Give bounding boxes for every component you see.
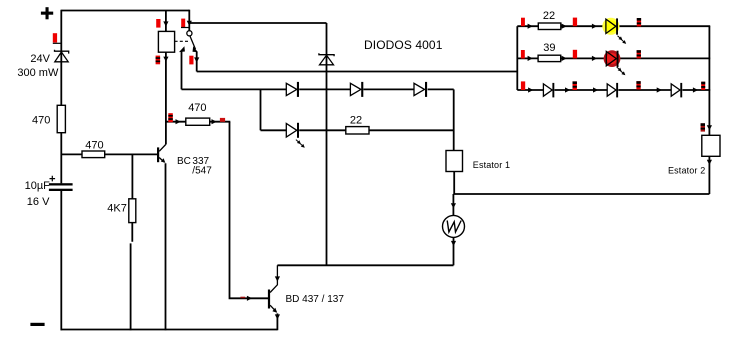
current arrow down — [707, 160, 712, 165]
wattmeter M1 — [443, 215, 465, 237]
tick under mark — [53, 42, 62, 44]
current arrow right — [592, 24, 597, 29]
striped test mark — [168, 113, 173, 122]
current arrow down collector — [275, 276, 280, 281]
switch S1 pivot — [187, 31, 192, 36]
wire meter to collector line — [453, 237, 455, 265]
resistor R4 22 — [346, 127, 369, 134]
red test mark switch top — [181, 19, 185, 28]
red test mark coil top — [156, 19, 160, 28]
Estator 1 winding — [446, 151, 463, 172]
wire BC337 emitter to bottom rail — [165, 163, 167, 330]
relay coil K1 — [158, 31, 174, 52]
LED L2 red glow — [604, 50, 621, 67]
striped test mark — [636, 81, 640, 89]
current arrow right — [528, 87, 533, 92]
minus terminal label — [30, 323, 44, 326]
wire top rail — [61, 10, 189, 12]
svg-text:24V: 24V — [30, 53, 50, 65]
resistor R2 470 (base) — [82, 151, 105, 158]
current arrow right — [212, 119, 217, 124]
wire junction to Estator2 bottom — [453, 193, 709, 195]
current arrow right — [592, 56, 597, 61]
zener D2 — [319, 53, 334, 65]
striped test mark Estator2 top — [701, 123, 705, 131]
svg-text:Estator 1: Estator 1 — [473, 160, 510, 170]
wire collector line — [277, 264, 453, 266]
striped test mark — [637, 50, 641, 58]
svg-text:470: 470 — [32, 115, 50, 127]
diode D9 — [671, 83, 682, 98]
resistor R3 470 (relay branch) — [186, 118, 210, 125]
red test mark — [189, 56, 193, 65]
current arrow down — [451, 203, 456, 208]
svg-text:22: 22 — [543, 10, 555, 22]
wire down to BD base — [230, 122, 269, 299]
wire diode row 1 — [182, 88, 454, 90]
wire left rail — [60, 10, 62, 331]
tick under mark — [181, 27, 189, 29]
current arrow down — [187, 21, 192, 26]
wire LED row A — [517, 25, 710, 27]
current arrow right — [528, 56, 533, 61]
transistor Q2 BD437 — [268, 265, 278, 330]
wire junction to meter — [452, 194, 454, 215]
svg-text:470: 470 — [188, 102, 206, 114]
LED L2 symbol — [606, 51, 618, 67]
switch contact right — [193, 46, 198, 52]
relay-switch dashed link — [175, 40, 188, 42]
svg-text:10µF: 10µF — [25, 180, 51, 192]
Estator 2 winding — [702, 135, 720, 156]
wire relay coil branch from top rail — [165, 11, 167, 32]
current arrow right — [565, 87, 570, 92]
wire LED row C — [517, 89, 710, 91]
svg-text:22: 22 — [350, 115, 362, 127]
svg-text:Estator 2: Estator 2 — [668, 165, 705, 175]
current arrow down — [451, 241, 456, 246]
diode D5 — [414, 82, 427, 97]
wire LED row B — [517, 57, 710, 59]
diode D7 — [543, 83, 554, 98]
wire right contact down — [196, 52, 198, 72]
current arrow down — [194, 57, 199, 62]
red test mark — [521, 50, 525, 59]
wire LED block left vertical — [516, 26, 518, 90]
svg-text:4K7: 4K7 — [107, 203, 127, 215]
resistor R6 22 — [538, 23, 561, 30]
wire row1 to Estator 1 — [453, 89, 455, 150]
diode D3 — [286, 82, 299, 97]
wire switch branch from top rail — [188, 10, 190, 31]
svg-text:300 mW: 300 mW — [17, 67, 59, 79]
resistor R7 39 — [538, 55, 561, 61]
svg-text:/547: /547 — [192, 165, 212, 176]
LED D6 light arrows — [296, 140, 300, 144]
current arrow down — [163, 57, 168, 62]
switch contact left — [179, 46, 185, 52]
transistor Q1 BC337 — [157, 145, 166, 163]
current arrow right — [562, 24, 567, 29]
wire LED row 2 — [261, 129, 454, 131]
capacitor C1 10uF — [49, 176, 73, 191]
current arrow right — [593, 87, 598, 92]
diode D4 — [350, 82, 363, 97]
red test mark — [573, 50, 577, 59]
wire 4K7 branch — [131, 154, 133, 198]
red test mark — [521, 18, 525, 27]
wire row1-row2 link — [260, 89, 262, 130]
svg-text:BD 437 / 137: BD 437 / 137 — [286, 294, 345, 305]
svg-text:DIODOS 4001: DIODOS 4001 — [364, 38, 443, 52]
current arrow right — [176, 119, 181, 124]
svg-text:39: 39 — [543, 42, 555, 54]
striped test mark coil bottom — [156, 56, 161, 65]
switch arm — [190, 36, 196, 49]
wire left contact down to diode row — [181, 52, 183, 90]
resistor R1 470 (vertical on left rail) — [57, 105, 65, 132]
small red mark — [220, 118, 225, 122]
dark red dash on base wire — [240, 297, 245, 299]
wire coil bottom to BC337 collector — [165, 52, 167, 144]
wire to LED block — [197, 71, 518, 73]
LED L1 light arrows — [618, 36, 622, 40]
zener D1 24V — [55, 50, 69, 62]
resistor R5 4K7 — [129, 199, 136, 223]
current arrow right — [528, 24, 533, 29]
wire zener branch vertical — [326, 23, 328, 265]
current arrow down — [707, 125, 712, 130]
current arrow right — [562, 56, 567, 61]
LED L1 symbol — [606, 18, 618, 34]
current arrow down — [163, 21, 168, 26]
wire Estator2 to bottom line — [708, 156, 710, 194]
striped test mark — [637, 18, 641, 26]
wire 470 branch to switch node — [166, 121, 230, 123]
LED L2 light arrows — [617, 67, 621, 71]
current arrow down emitter — [275, 314, 280, 319]
plus terminal label — [41, 7, 53, 19]
red test mark on left rail — [53, 33, 57, 42]
striped test mark — [701, 82, 705, 90]
red test mark — [573, 18, 577, 27]
svg-text:16 V: 16 V — [27, 196, 50, 208]
wire bottom rail — [61, 329, 278, 331]
red test mark — [521, 81, 525, 90]
svg-text:470: 470 — [85, 140, 103, 152]
current arrow right — [657, 87, 662, 92]
current arrow right — [693, 87, 698, 92]
LED D6 — [286, 123, 299, 138]
striped test mark — [573, 81, 577, 90]
wire LED block right vertical — [708, 26, 710, 135]
current arrow right — [247, 296, 252, 301]
wire 4K7 lower lead — [131, 223, 133, 331]
wire switch node to zener branch — [189, 22, 326, 24]
LED L1 yellow glow — [602, 18, 619, 35]
diode D8 — [607, 83, 618, 98]
wire base branch — [61, 153, 157, 155]
wire Estator1 to junction — [453, 172, 455, 195]
